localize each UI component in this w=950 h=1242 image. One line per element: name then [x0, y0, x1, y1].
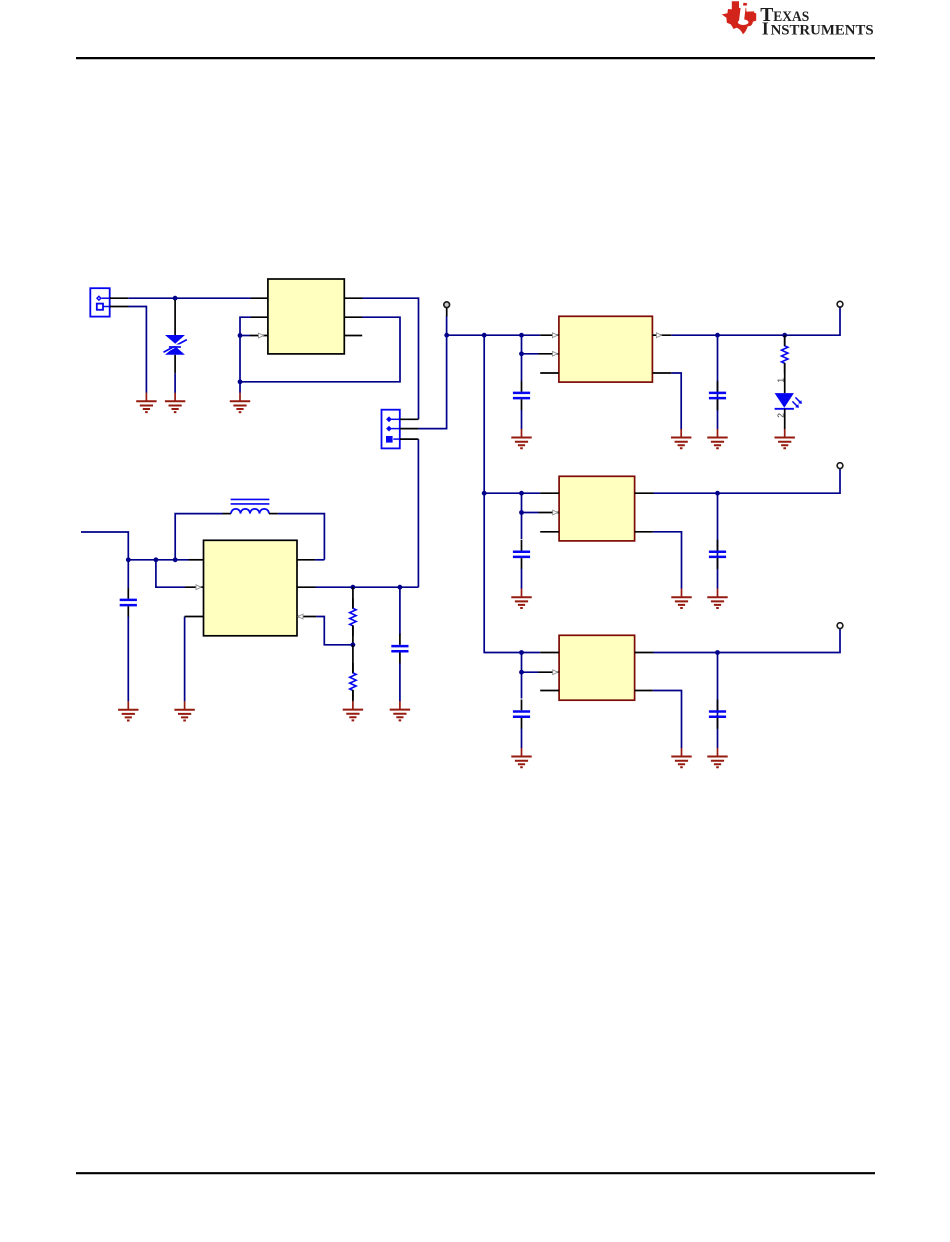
ground (C6) [707, 589, 727, 608]
junction U1 rail pin3 [238, 333, 243, 338]
ground (U1) [230, 393, 250, 412]
wire L1 left lead [175, 514, 231, 560]
wire C4 branch [717, 335, 719, 429]
junction C2 tap [398, 585, 403, 590]
wire C8 branch [717, 653, 719, 749]
resistor R1 [782, 336, 788, 374]
junction C8 tap [715, 650, 720, 655]
resistor R2 [350, 598, 356, 636]
wire U1 pinA to J2 pin1 [344, 298, 418, 419]
wire VIN feed [81, 532, 128, 560]
IC U3 (LDO2) [559, 476, 635, 541]
LED D2 [775, 393, 802, 409]
ground (C2) [390, 701, 410, 720]
ground (U4) [671, 748, 691, 767]
capacitor C1 [120, 588, 137, 617]
junction U2 pin2 [519, 351, 524, 356]
wire J1 pin1 to U1 pin1 [110, 297, 268, 299]
wire C3 to ground [521, 410, 523, 429]
capacitor C3 [513, 381, 530, 410]
J2 pin1 stub [400, 418, 419, 420]
wire U5 gnd pin [185, 617, 204, 702]
junction C6 tap [715, 491, 720, 496]
wire U1 pin2 left rail [240, 317, 268, 393]
wire U2 pin2 tap [522, 351, 559, 356]
connector J2 (3-pin header) [382, 410, 400, 449]
wire D1 to ground [174, 373, 176, 393]
junction input node [444, 333, 449, 338]
ground (R3) [343, 701, 363, 720]
wire C5 to ground [521, 569, 523, 589]
terminal J3 (LDO1 out) [837, 301, 843, 307]
wire J2 pin3 to VOUT rail [400, 439, 419, 587]
wire C7 to ground [521, 728, 523, 748]
capacitor C7 [513, 700, 530, 729]
ground (C8) [707, 748, 727, 767]
wire U3 output rail [635, 469, 840, 494]
wire J1 pin2 to ground [110, 307, 147, 393]
wire U4 output rail [635, 629, 840, 653]
terminal TP1 (gray) [444, 302, 450, 317]
wire C1 branch [127, 560, 129, 588]
wire U5 EN pin [156, 560, 204, 590]
wire L1 right lead to U5 SW [269, 514, 324, 560]
wire U3 gnd pin [635, 532, 682, 589]
junction EN tap [154, 557, 159, 562]
terminal J5 (LDO3 out) [837, 623, 843, 629]
capacitor C4 [709, 381, 726, 410]
TI logo [722, 1, 756, 34]
wire U1 pinB feedback loop [240, 317, 400, 382]
IC U5 (buck) [204, 540, 298, 636]
wire D2 to ground [784, 409, 786, 430]
junction U3 pin2 [519, 510, 524, 515]
footer rule [76, 1172, 875, 1174]
junction C7 tap [519, 650, 524, 655]
junction VIN / D1 tap [173, 296, 178, 301]
wire C6 branch [717, 493, 719, 589]
wire R3 to ground [352, 690, 354, 701]
junction C4 tap [715, 333, 720, 338]
junction U4 pin2 [519, 670, 524, 675]
IC U2 (LDO1) [559, 316, 653, 382]
ground (C3) [511, 429, 531, 448]
wire U5 output rail [297, 586, 418, 588]
capacitor C8 [709, 700, 726, 729]
wire R1 top lead [784, 335, 786, 346]
wire R3 top lead [352, 645, 354, 673]
ground (D2) [775, 429, 795, 448]
wire C7 branch [521, 653, 523, 699]
U3 pin NC stub [540, 531, 559, 533]
wire C2 to ground [399, 663, 401, 701]
IC U1 [268, 279, 344, 354]
U2 pin NC stub [540, 372, 559, 374]
U2 pin1 stub [540, 333, 559, 338]
ground (C7) [511, 748, 531, 767]
capacitor C2 [391, 634, 408, 663]
junction FB node [351, 642, 356, 647]
wire C2 branch [399, 587, 401, 635]
junction L1 tap [173, 557, 178, 562]
junction rail LDO2 [482, 491, 487, 496]
junction LDO1 cap tap [519, 333, 524, 338]
wire C5 branch [521, 493, 523, 539]
wire U4 pin2 tap [522, 670, 560, 675]
TVS diode D1 [164, 300, 187, 373]
header rule [76, 57, 875, 59]
pin label 2 [776, 413, 786, 418]
IC U4 (LDO3) [559, 635, 635, 700]
connector J1 (DC power jack) [90, 288, 109, 316]
ground (D1) [165, 393, 185, 412]
wire LDO2 input [484, 492, 559, 494]
U5 pin1 stub [189, 559, 204, 561]
wire U2 output rail [652, 307, 840, 337]
wire LDO3 input [522, 652, 560, 654]
wire input rail [447, 334, 541, 336]
ground (U5) [174, 701, 194, 720]
ground (U2) [671, 429, 691, 448]
svg-text:NSTRUMENTS: NSTRUMENTS [771, 23, 874, 39]
wire R1 to D2 [784, 363, 786, 393]
wire buck input rail [128, 559, 188, 561]
pin label 1 [776, 378, 786, 383]
junction U1 rail loop [238, 379, 243, 384]
wire U2 gnd pin [652, 373, 681, 430]
junction C1 tap [126, 557, 131, 562]
wire U5 FB pin [297, 614, 353, 645]
capacitor C5 [513, 540, 530, 569]
wire J2 pin2 to input node [400, 316, 447, 429]
terminal J4 (LDO2 out) [837, 463, 843, 469]
svg-text:I: I [762, 19, 769, 39]
resistor R3 [350, 663, 356, 701]
wire R2 to R3 [352, 626, 354, 645]
ground (C1) [118, 701, 138, 720]
wire C3 branch [521, 335, 523, 381]
U1 pinC stub (n.c.) [344, 335, 362, 337]
junction LED tap [782, 333, 787, 338]
junction R2 tap [351, 585, 356, 590]
wire vertical LDO rail [484, 335, 521, 652]
wire C1 to ground [127, 617, 129, 702]
ground (C5) [511, 589, 531, 608]
ground (U3) [671, 589, 691, 608]
wire U3 pin2 tap [522, 510, 560, 515]
ground (J1 sleeve) [136, 393, 156, 412]
TI wordmark [760, 5, 873, 39]
U4 pin NC stub [540, 690, 559, 692]
junction C5 tap [519, 491, 524, 496]
wire U4 gnd pin [635, 691, 682, 749]
wire U1 pin3 (input arrow) [240, 333, 268, 338]
capacitor C6 [709, 540, 726, 569]
junction rail drop [482, 333, 487, 338]
wire R2 top lead [352, 587, 354, 608]
ground (C4) [707, 429, 727, 448]
inductor L1 [231, 499, 270, 513]
svg-text:1: 1 [776, 378, 786, 383]
